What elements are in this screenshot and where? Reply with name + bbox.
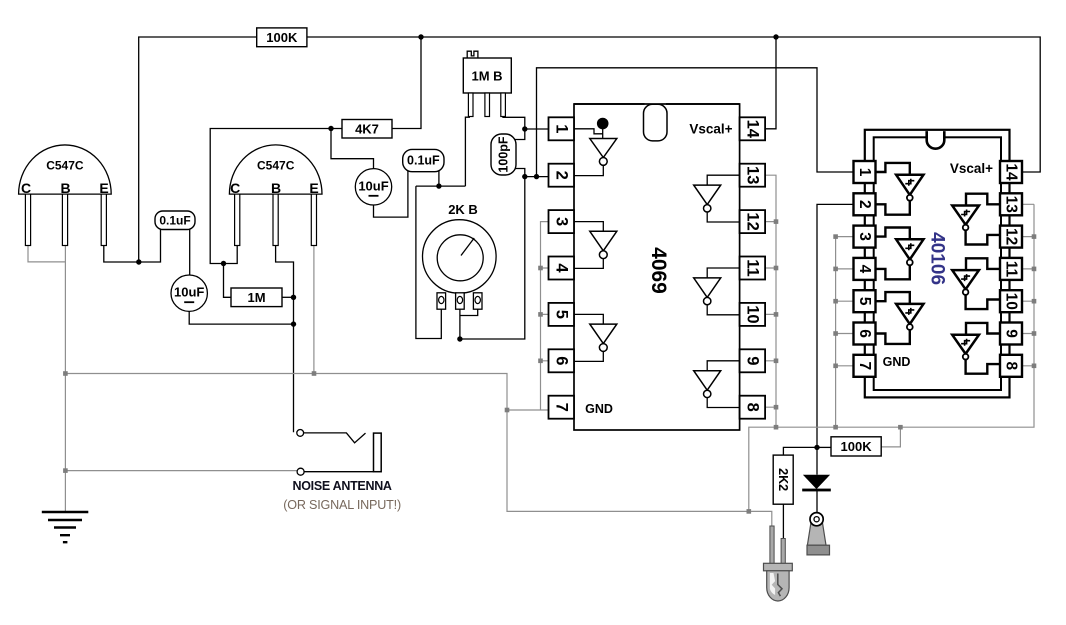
svg-text:C547C: C547C	[46, 159, 84, 173]
wire transistor Q1 emitter to C1/C2 node	[104, 228, 161, 262]
IC U2 index notch	[927, 131, 945, 149]
gray junction U2 bus pin4	[833, 267, 838, 272]
IC U1 pin 5	[549, 303, 575, 326]
svg-text:4: 4	[856, 265, 873, 274]
inverter U1D	[694, 185, 721, 212]
schmitt inverter U2 gate 13->12 output wire	[966, 230, 1000, 244]
svg-text:13: 13	[743, 166, 761, 184]
svg-text:100K: 100K	[841, 439, 873, 454]
resistor 100K (top feedback)	[257, 28, 307, 47]
ground symbol	[42, 512, 89, 542]
gray junction U2 bus pin3	[833, 234, 838, 239]
svg-text:0.1uF: 0.1uF	[159, 213, 190, 227]
svg-text:6: 6	[856, 329, 873, 338]
wire node D horizontal run	[416, 185, 466, 187]
gray junction U1 bus pin5	[538, 312, 543, 317]
gray junction U2 rbus pin9	[1032, 331, 1037, 336]
svg-text:E: E	[309, 180, 318, 196]
IC U2 pin 7	[854, 355, 876, 377]
wire 40106 unused-input bus left (gray)	[836, 237, 854, 428]
wire C5 bottom lead to node B	[514, 169, 525, 177]
svg-text:0.1uF: 0.1uF	[407, 154, 440, 168]
jack J1 sleeve contact	[297, 468, 304, 475]
wire output node to 100K left lead	[817, 446, 831, 448]
wire 40106 unused bus right stubs (gray)	[1022, 204, 1034, 365]
wire node D up to trimmer leg 1	[465, 117, 470, 186]
capacitor C2 10uF electrolytic	[171, 275, 207, 311]
gray junction ground/Q1	[63, 371, 68, 376]
svg-text:C: C	[230, 180, 240, 196]
inverter U1B input wire	[574, 222, 603, 232]
IC U2 pin 3	[854, 226, 876, 248]
svg-text:13: 13	[1003, 196, 1020, 214]
gray junction U2 rbus pin11	[1032, 267, 1037, 272]
gray junction ground corner SE	[747, 509, 752, 514]
wire 4K7 right lead up to top rail	[392, 37, 421, 129]
transistor Q1 C547C	[19, 145, 112, 246]
IC U2 pin 13	[1000, 193, 1022, 215]
svg-text:B: B	[271, 180, 281, 196]
IC U2 pin 1	[854, 161, 876, 183]
IC U2 pin 4	[854, 258, 876, 280]
svg-text:2: 2	[856, 200, 873, 209]
wire node A down to C5 top lead	[514, 129, 525, 140]
svg-text:E: E	[99, 180, 108, 196]
svg-text:11: 11	[1003, 261, 1020, 278]
IC U1 pin 4	[549, 257, 575, 280]
svg-text:(OR SIGNAL INPUT!): (OR SIGNAL INPUT!)	[283, 498, 401, 512]
svg-text:Vscal+: Vscal+	[950, 161, 993, 176]
wire pot wiper lug down	[459, 308, 461, 339]
diode D1	[802, 475, 831, 492]
wire 4K7 left lead to Q2 collector node	[210, 129, 342, 264]
IC U2 pin 6	[854, 323, 876, 345]
inverter U1A input wire with pin1 marker	[574, 126, 603, 139]
capacitor C4 10uF electrolytic	[355, 169, 391, 205]
wire ground to jack sleeve (gray)	[65, 470, 297, 472]
wire node B up and across to 40106 pin 1	[537, 68, 855, 177]
IC U1 index notch	[644, 104, 668, 141]
resistor 100K (output)	[831, 437, 881, 456]
gray junction U1 rbus pin11	[774, 266, 779, 271]
svg-text:7: 7	[552, 403, 570, 412]
inverter U1A	[590, 139, 617, 166]
IC U1 pin 6	[549, 349, 575, 372]
junction output node	[814, 445, 819, 450]
schmitt inverter U2 gate 3->4 input wire	[876, 228, 910, 240]
gray junction ground/Q2 emitter	[312, 371, 317, 376]
wire ground bus horizontal run (gray)	[65, 374, 748, 512]
wire 2K2 bottom lead to LED anode	[782, 504, 784, 539]
resistor 1M	[231, 288, 282, 307]
schmitt inverter U2 gate 5->6 output wire	[876, 330, 910, 344]
schmitt inverter U2 gate 9->8 input wire	[966, 323, 999, 335]
inverter U1F input wire	[707, 361, 739, 371]
wire 4069 unused-input bus left (gray)	[541, 222, 550, 410]
svg-text:14: 14	[743, 120, 761, 139]
inverter U1E input wire	[707, 268, 739, 278]
schmitt inverter U2 gate 3->4	[896, 239, 923, 265]
wire node B down to pot 2K B wiper	[460, 177, 525, 339]
IC U2 pin 9	[1000, 323, 1022, 345]
wire ground bus to LED cathode (gray)	[749, 511, 772, 527]
IC U2 pin 11	[1000, 258, 1022, 280]
resistor 4K7	[342, 120, 392, 139]
svg-text:11: 11	[743, 259, 761, 276]
svg-text:40106: 40106	[926, 232, 947, 285]
svg-text:4: 4	[552, 263, 570, 273]
IC U1 pin 8	[740, 396, 766, 419]
capacitor C3 0.1uF	[403, 149, 444, 171]
schmitt inverter U2 gate 9->8 output wire	[966, 360, 1000, 374]
wire diode cathode to plug tip	[816, 491, 818, 513]
IC U1 pin 14	[740, 117, 766, 140]
schmitt inverter U2 gate 11->10 input wire	[966, 258, 999, 270]
inverter U1C	[590, 324, 617, 351]
IC U2 pin 10	[1000, 290, 1022, 312]
junction node B riser	[534, 174, 539, 179]
svg-text:12: 12	[743, 212, 761, 230]
inverter U1E	[694, 278, 721, 305]
inverter U1A output wire	[574, 165, 603, 175]
IC U1 pin 9	[740, 349, 766, 372]
svg-text:5: 5	[856, 297, 873, 306]
gray junction U1 rbus pin8	[774, 405, 779, 410]
inverter U1D input wire	[707, 175, 739, 185]
gray junction U1 bus pin4	[538, 266, 543, 271]
wire 100K output resistor right lead to ground (gray)	[881, 427, 900, 447]
schmitt inverter U2 gate 11->10 output wire	[966, 295, 1000, 309]
gray junction U2 bus pin5	[833, 299, 838, 304]
junction 1M right / base	[291, 295, 296, 300]
svg-text:9: 9	[743, 356, 761, 365]
gray junction ground/pin7	[505, 408, 510, 413]
wire pot right lug tie to wiper	[460, 308, 478, 316]
svg-text:C: C	[21, 180, 31, 196]
IC U1 pin 13	[740, 164, 766, 187]
gray junction U2 rbus pin8	[1032, 364, 1037, 369]
schmitt inverter U2 gate 1->2	[896, 175, 923, 201]
schmitt inverter U2 gate 1->2 input wire	[876, 163, 910, 175]
svg-text:100pF: 100pF	[497, 136, 511, 172]
svg-text:4069: 4069	[647, 247, 670, 294]
wire C4 bottom to C3 left lead	[374, 170, 408, 217]
svg-text:3: 3	[856, 232, 873, 241]
svg-text:1: 1	[552, 124, 570, 133]
IC U1 pin 11	[740, 257, 766, 280]
svg-text:100K: 100K	[266, 30, 298, 45]
wire branch top rail down to 4069 pin 14	[765, 37, 776, 129]
output plug P1	[807, 513, 830, 555]
svg-text:2K2: 2K2	[776, 468, 790, 491]
IC U2 inner body	[874, 137, 1001, 390]
schmitt inverter U2 gate 1->2 output wire	[876, 201, 910, 215]
svg-text:14: 14	[1003, 163, 1020, 181]
wire 4069 unused-gate bus right (gray)	[765, 175, 776, 427]
gray junction U1 rbus pin9	[774, 359, 779, 364]
capacitor C5 100pF	[491, 134, 516, 175]
IC U1 pin 7	[549, 396, 575, 419]
IC U2 pin 8	[1000, 355, 1022, 377]
junction top rail / 4069 pin14	[773, 34, 778, 39]
svg-text:12: 12	[1003, 228, 1020, 245]
gray junction ground/100K riser	[898, 425, 903, 430]
wire output node to 2K2 top lead	[783, 447, 817, 456]
jack J1 tip spring	[304, 433, 366, 443]
IC U1 pin 2	[549, 164, 575, 187]
gray junction U1 bus pin6	[538, 359, 543, 364]
gray junction ground/4069 bus	[774, 425, 779, 430]
IC U1 pin 12	[740, 210, 766, 233]
schmitt inverter U2 gate 11->10	[952, 270, 979, 295]
svg-text:6: 6	[552, 356, 570, 365]
inverter U1B	[590, 231, 617, 258]
svg-text:4K7: 4K7	[355, 121, 379, 136]
wire C1 right lead down to C2 top	[189, 228, 191, 276]
inverter U1E output wire	[707, 305, 739, 315]
wire branch down to C4 top	[331, 129, 374, 170]
svg-text:1M: 1M	[247, 290, 265, 305]
svg-text:10uF: 10uF	[174, 285, 204, 300]
wire node B to 4069 pin 2	[525, 176, 550, 178]
resistor 2K2 (vertical)	[773, 455, 793, 504]
wire top supply rail from 100K to ICs	[139, 37, 1040, 262]
gray junction U1 rbus pin10	[774, 312, 779, 317]
gray junction U2 rbus pin12	[1032, 234, 1037, 239]
op IC U1 4069 body	[574, 104, 740, 430]
wire output node down to diode D1 anode	[816, 447, 818, 474]
svg-text:2K B: 2K B	[448, 202, 478, 217]
schmitt inverter U2 gate 9->8	[952, 335, 979, 360]
wire C2 bottom to node B2	[189, 311, 293, 324]
wire Q2 emitter down to ground bus (gray)	[313, 245, 315, 374]
gray junction U2 rbus pin10	[1032, 299, 1037, 304]
inverter U1A pin-1 dot	[597, 118, 609, 130]
svg-text:GND: GND	[585, 402, 613, 416]
transistor Q2 C547C	[229, 145, 322, 246]
capacitor C1 0.1uF	[155, 211, 195, 230]
inverter U1F output wire	[707, 398, 739, 408]
wire Q2 collector down to 1M left lead	[224, 245, 238, 297]
wire ground bus riser to 40106 area (gray)	[749, 204, 1034, 511]
svg-text:2: 2	[552, 171, 570, 180]
junction pot wiper	[457, 336, 462, 341]
svg-text:1: 1	[856, 168, 873, 177]
svg-text:10: 10	[743, 305, 761, 323]
svg-text:1M B: 1M B	[471, 68, 502, 83]
IC U2 pin 14	[1000, 161, 1022, 183]
inverter U1B output wire	[574, 259, 603, 269]
svg-text:C547C: C547C	[257, 159, 295, 173]
wire ground bus to 4069 pin 7 (gray)	[507, 409, 550, 411]
inverter U1C input wire	[574, 314, 603, 324]
schmitt inverter U2 gate 5->6	[896, 304, 923, 330]
wire Q1 collector+base to ground bus (gray)	[28, 245, 65, 374]
IC U2 pin 2	[854, 193, 876, 215]
svg-text:10uF: 10uF	[358, 178, 388, 193]
gray junction U2 bus pin7	[833, 364, 838, 369]
schmitt IC U2 40106 outer body	[865, 130, 1010, 398]
schmitt inverter U2 gate 13->12	[952, 206, 979, 231]
wire node D down to pot 2K B left lug	[416, 186, 441, 338]
wire 40106 pin 2 down to output node	[817, 204, 854, 447]
IC U1 pin 1	[549, 117, 575, 140]
schmitt inverter U2 gate 3->4 output wire	[876, 266, 910, 280]
inverter U1D output wire	[707, 212, 739, 222]
LED D2	[764, 526, 793, 601]
junction base / C2 bottom	[291, 321, 296, 326]
wire Q2 base to 1M right lead and jack tip	[276, 245, 294, 432]
wire C3 right lead down to node D	[438, 170, 440, 186]
svg-text:7: 7	[856, 361, 873, 370]
IC U2 pin 5	[854, 290, 876, 312]
gray junction U2 bus pin6	[833, 331, 838, 336]
junction Q1 emitter node	[136, 259, 141, 264]
schmitt inverter U2 gate 13->12 input wire	[966, 194, 999, 206]
inverter U1F	[694, 371, 721, 398]
junction Q2 collector node	[221, 261, 226, 266]
junction node B	[522, 174, 527, 179]
IC U1 top border repaint	[574, 103, 740, 105]
wire trimmer leg 3 to node A	[503, 116, 525, 129]
inverter U1C output wire	[574, 352, 603, 362]
svg-text:10: 10	[1003, 293, 1020, 310]
trimmer potentiometer 1M B	[463, 51, 511, 116]
IC U2 pin 12	[1000, 226, 1022, 248]
svg-text:B: B	[60, 180, 70, 196]
svg-text:5: 5	[552, 310, 570, 319]
svg-text:NOISE ANTENNA: NOISE ANTENNA	[293, 479, 392, 493]
schmitt inverter U2 gate 5->6 input wire	[876, 292, 910, 304]
svg-text:9: 9	[1003, 329, 1020, 338]
gray junction U1 rbus pin12	[774, 219, 779, 224]
junction 4K7 / C4 branch	[328, 126, 333, 131]
jack J1 sleeve lead	[304, 471, 373, 473]
wire ground stub to earth symbol (gray)	[64, 374, 66, 512]
potentiometer 2K B	[423, 202, 497, 309]
wire node A to 4069 pin 1	[525, 128, 550, 130]
gray junction ground/sleeve	[63, 468, 68, 473]
junction node A	[522, 126, 527, 131]
junction node D / C3	[436, 183, 441, 188]
jack J1 barrel	[374, 433, 382, 472]
svg-text:8: 8	[743, 403, 761, 412]
svg-text:3: 3	[552, 217, 570, 226]
svg-text:8: 8	[1003, 361, 1020, 370]
svg-text:Vscal+: Vscal+	[689, 121, 732, 136]
junction top rail / 4K7	[418, 34, 423, 39]
gray junction ground/40106 left bus	[833, 425, 838, 430]
IC U1 pin 3	[549, 210, 575, 233]
wire 1M right lead	[282, 296, 294, 298]
IC U1 pin 10	[740, 303, 766, 326]
jack J1 tip contact	[297, 430, 304, 437]
svg-text:GND: GND	[883, 355, 911, 369]
